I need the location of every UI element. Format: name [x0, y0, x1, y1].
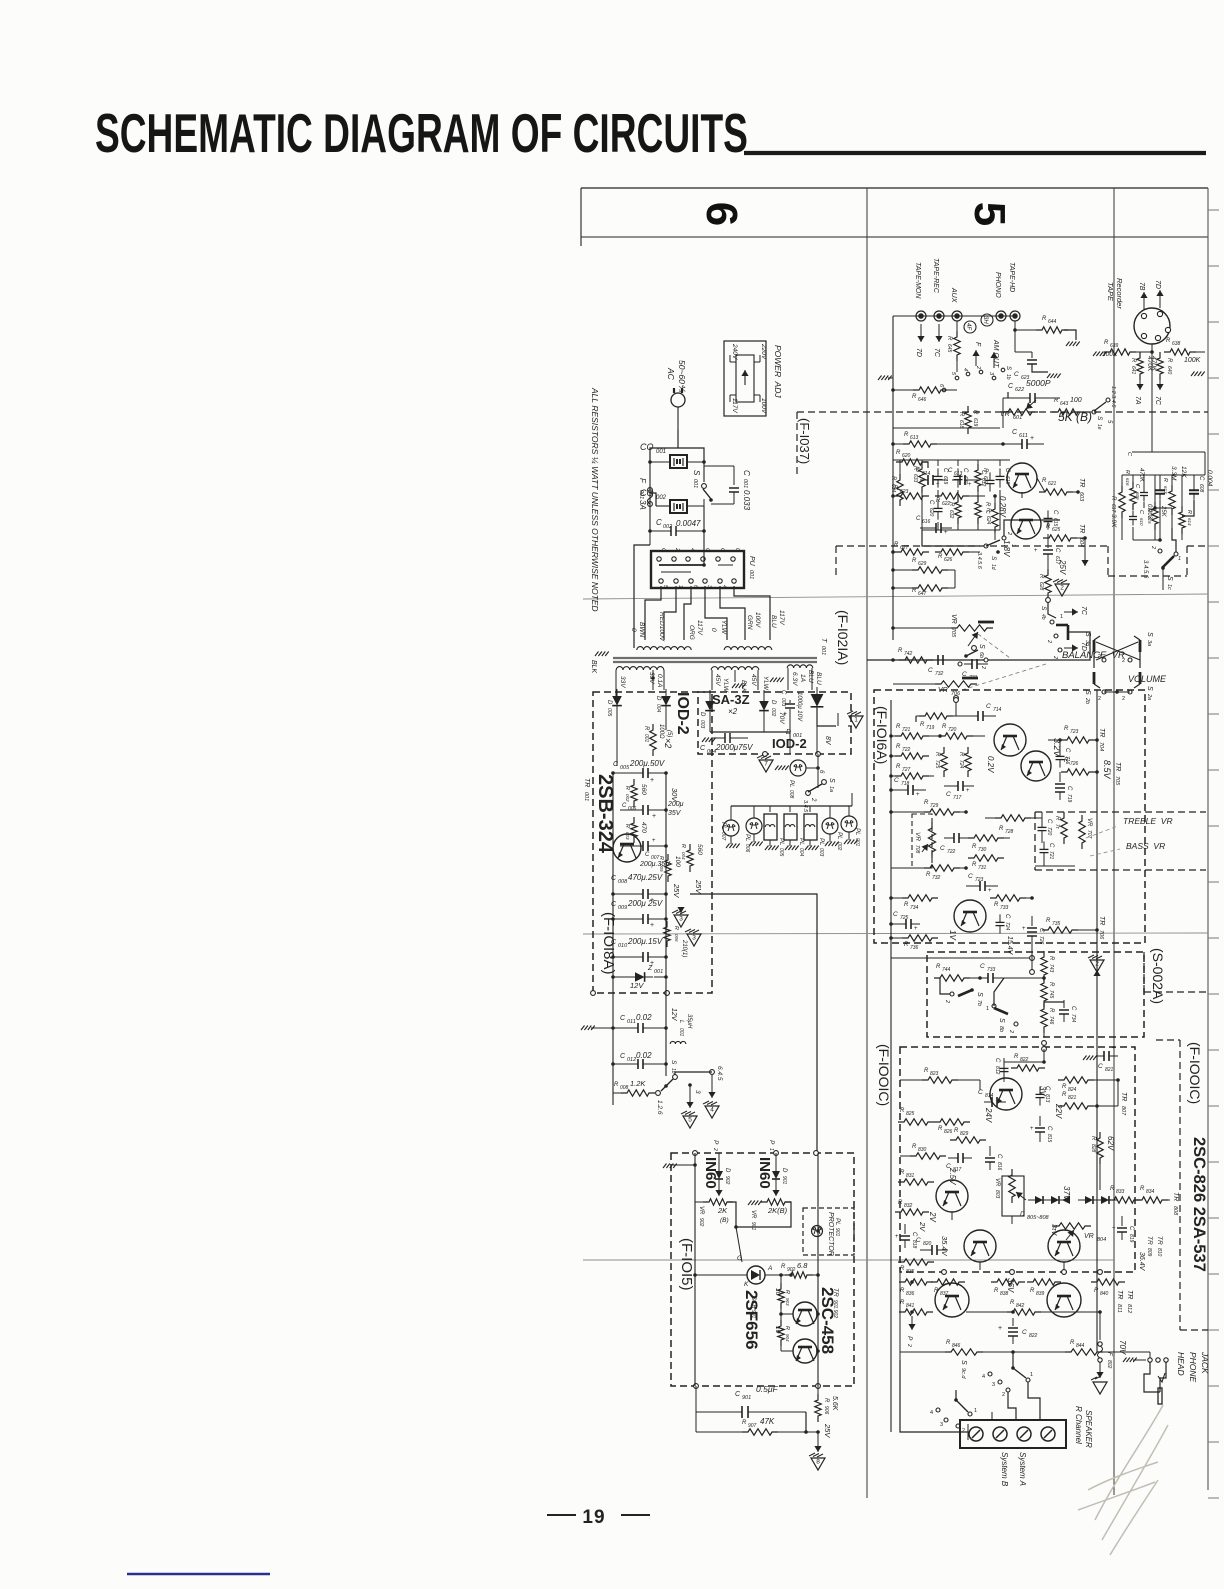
switch S2b [1084, 672, 1106, 704]
VR dashed link [962, 634, 1046, 690]
label TR706 [1098, 916, 1105, 940]
svg-text:2a: 2a [1146, 693, 1152, 700]
svg-text:2: 2 [1150, 545, 1156, 549]
svg-text:+: + [783, 711, 787, 718]
svg-text:C: C [1048, 843, 1054, 848]
svg-text:TR: TR [1078, 478, 1085, 487]
svg-text:834: 834 [1146, 1189, 1155, 1195]
resistor R729 [889, 800, 968, 815]
svg-text:C: C [1046, 1126, 1052, 1131]
capacitor C732 [928, 655, 954, 677]
resistor R832 [895, 1200, 929, 1215]
resistor R841 [899, 1300, 933, 1315]
F-1037 dashed bottom [836, 546, 1208, 576]
pot VR804 [1050, 1223, 1106, 1243]
capacitor C608b [1155, 475, 1165, 500]
svg-text:R: R [924, 800, 929, 806]
svg-text:R: R [1046, 524, 1051, 530]
svg-text:622: 622 [942, 501, 951, 507]
F-1016A bottom wire [891, 944, 1034, 974]
svg-text:6.4.5: 6.4.5 [716, 1066, 723, 1081]
svg-text:C: C [948, 468, 953, 474]
resistor R721 [889, 724, 942, 739]
svg-text:+: + [944, 530, 948, 536]
svg-text:47K: 47K [760, 1417, 775, 1426]
line filter CO001 [648, 455, 706, 468]
capacitor C719 [1055, 772, 1072, 803]
connector triangle 5 [681, 1111, 697, 1128]
resistor R002 560 [624, 779, 647, 807]
switch S8b [986, 978, 1018, 1033]
svg-text:723: 723 [1070, 729, 1079, 735]
svg-text:100V: 100V [760, 398, 767, 414]
svg-text:5000P: 5000P [1026, 378, 1051, 388]
svg-text:643: 643 [1060, 401, 1069, 407]
resistor R614 12K [1179, 466, 1192, 540]
svg-text:7b: 7b [976, 1000, 982, 1006]
svg-text:3a: 3a [1146, 640, 1152, 646]
svg-text:615: 615 [1052, 518, 1058, 527]
transistor TR705 [1021, 738, 1062, 781]
resistor R725 [934, 747, 947, 777]
svg-text:617: 617 [1110, 504, 1116, 513]
pot VR706 [893, 678, 978, 700]
label 25V pair [672, 879, 703, 898]
svg-text:×2: ×2 [663, 738, 673, 748]
svg-text:2b: 2b [1084, 697, 1090, 704]
lamp PL006 [744, 818, 763, 853]
svg-text:828: 828 [1090, 1144, 1096, 1153]
capacitor C820 [916, 1236, 949, 1257]
resistor R844 [1013, 1340, 1127, 1355]
svg-text:901: 901 [742, 1395, 751, 1401]
transistor TR704 [986, 724, 1062, 773]
svg-text:VR: VR [950, 614, 957, 624]
capacitor C818 [895, 1221, 927, 1249]
label TR809 TR810 [1138, 1236, 1163, 1272]
frame left border [580, 188, 582, 246]
capacitor C813 [1036, 1086, 1051, 1106]
svg-text:C: C [980, 963, 985, 970]
transistor TR812 [1047, 1283, 1081, 1317]
svg-text:3.3M: 3.3M [1170, 466, 1177, 481]
label TR808 [1172, 1192, 1179, 1216]
svg-text:L: L [678, 1020, 684, 1023]
svg-text:R: R [972, 862, 977, 868]
capacitor C006 200u35V [620, 801, 684, 820]
svg-text:C: C [928, 500, 934, 505]
svg-text:704: 704 [1098, 742, 1104, 751]
jack TAPE-REC [932, 258, 944, 358]
svg-text:809: 809 [1146, 1248, 1152, 1257]
svg-text:3: 3 [679, 916, 683, 923]
svg-text:645: 645 [946, 344, 952, 353]
transformer core [613, 658, 817, 662]
svg-text:708: 708 [914, 845, 920, 854]
svg-text:804: 804 [1097, 1237, 1106, 1243]
svg-text:+: + [1112, 1226, 1116, 1232]
resistor R003 470 [624, 817, 647, 843]
label F802 [1096, 1312, 1113, 1378]
svg-text:CO: CO [640, 442, 654, 452]
pot VR706b wire [891, 698, 958, 703]
F-1037 dashed top [797, 412, 1208, 478]
svg-text:100: 100 [1070, 397, 1082, 404]
transistor TR603 [998, 463, 1037, 518]
svg-text:6.8: 6.8 [797, 1261, 808, 1270]
svg-text:731: 731 [978, 865, 987, 871]
capacitor C734 [1044, 1000, 1076, 1023]
label S-002A [1150, 948, 1166, 1004]
resistor R744 [934, 964, 980, 981]
svg-text:R: R [658, 856, 664, 860]
capacitor C623 [1014, 352, 1061, 381]
svg-text:744: 744 [942, 967, 951, 973]
svg-text:ALL RESISTORS ¼ WATT UNLESS OT: ALL RESISTORS ¼ WATT UNLESS OTHERWISE NO… [590, 387, 600, 612]
svg-text:VR: VR [750, 1210, 756, 1219]
resistor R837 [931, 1279, 965, 1297]
svg-text:0.28V: 0.28V [998, 496, 1007, 518]
svg-text:1c: 1c [1166, 584, 1172, 590]
svg-text:003: 003 [818, 848, 824, 857]
svg-text:7D: 7D [1154, 280, 1161, 289]
svg-text:25K: 25K [1160, 505, 1166, 518]
svg-text:823: 823 [930, 1071, 939, 1077]
resistor R624 [985, 503, 998, 533]
resistor R646 [891, 387, 957, 403]
capacitor C815 [1030, 1116, 1052, 1143]
svg-text:903: 903 [785, 1298, 790, 1306]
label 2SB-324 [583, 774, 616, 854]
svg-text:C: C [1004, 914, 1010, 919]
wires to speaker strip [900, 1352, 1040, 1440]
svg-text:R: R [680, 844, 686, 848]
svg-text:902: 902 [724, 1176, 730, 1185]
svg-text:004: 004 [681, 852, 686, 860]
transistor TR806 [984, 1078, 1047, 1123]
svg-text:3: 3 [694, 1090, 701, 1094]
preamp mid verticals [955, 492, 1048, 588]
svg-text:100V: 100V [754, 612, 761, 628]
resistor R906 5.6K [815, 1394, 838, 1438]
svg-text:R: R [958, 752, 964, 757]
capacitor C725 [889, 911, 920, 932]
capacitor C821 [1083, 1046, 1118, 1073]
svg-text:+: + [650, 777, 654, 784]
resistor R826 [934, 1119, 970, 1135]
preamp top wires [893, 398, 1003, 428]
resistor R006 210 [664, 921, 687, 957]
svg-text:004: 004 [798, 848, 804, 857]
svg-text:GRN: GRN [746, 615, 753, 630]
svg-text:R: R [904, 432, 909, 438]
F-1015 dashed box [671, 1151, 854, 1389]
resistor R613 [891, 432, 1005, 447]
label IN60 right [756, 1157, 773, 1189]
svg-text:2: 2 [975, 365, 981, 369]
svg-text:VR: VR [994, 1178, 1000, 1187]
svg-text:+: + [914, 926, 918, 932]
capacitor C724 [996, 914, 1014, 956]
svg-text:HEAD: HEAD [1176, 1352, 1186, 1376]
svg-text:002: 002 [625, 794, 630, 802]
label BASS VR [1090, 841, 1165, 856]
svg-text:G: G [737, 1255, 742, 1262]
secondary winding 45V [711, 667, 759, 690]
label P1 [768, 1140, 775, 1151]
svg-text:1a: 1a [828, 786, 834, 792]
svg-text:1.2.3.4.6: 1.2.3.4.6 [1110, 386, 1116, 408]
svg-text:C: C [742, 470, 751, 476]
svg-text:613: 613 [954, 471, 963, 477]
resistor R734 [889, 895, 938, 911]
svg-text:C: C [962, 468, 968, 473]
svg-text:842: 842 [1016, 1303, 1025, 1309]
svg-text:628: 628 [1038, 582, 1044, 591]
resistor R620 [896, 450, 928, 468]
svg-text:835: 835 [906, 1269, 915, 1275]
svg-text:611: 611 [1019, 433, 1028, 439]
svg-text:D: D [699, 712, 705, 717]
svg-text:0.0047: 0.0047 [676, 519, 701, 528]
svg-text:+: + [652, 838, 656, 844]
svg-text:732: 732 [935, 671, 944, 677]
svg-text:R: R [1030, 1288, 1035, 1294]
svg-text:705: 705 [950, 628, 956, 638]
svg-text:005: 005 [659, 864, 664, 872]
svg-text:R: R [1166, 358, 1172, 363]
svg-text:R: R [924, 1068, 929, 1074]
svg-text:620: 620 [928, 508, 934, 517]
svg-text:C: C [704, 548, 710, 552]
svg-text:2K(B): 2K(B) [767, 1206, 788, 1215]
label 2SF656 [742, 1290, 761, 1350]
svg-text:R: R [938, 554, 943, 560]
svg-text:720: 720 [948, 727, 957, 733]
resistor R617 3.9K [1110, 475, 1125, 540]
svg-text:822: 822 [1029, 1333, 1038, 1339]
svg-text:BWN: BWN [638, 622, 645, 637]
svg-text:PU: PU [748, 556, 755, 567]
svg-text:IN60: IN60 [756, 1157, 773, 1189]
wire DIN down [1151, 344, 1153, 360]
connector triangle 2b [1088, 955, 1104, 992]
capacitor C717 [944, 781, 974, 801]
capacitor C616 [916, 516, 952, 536]
svg-text:3: 3 [692, 935, 696, 942]
label TR901.902 [832, 1288, 839, 1318]
svg-text:632: 632 [948, 510, 954, 519]
svg-text:R: R [984, 502, 990, 507]
label CO001 [640, 442, 666, 455]
bottom blue rule [127, 1573, 270, 1575]
svg-text:1V: 1V [948, 930, 957, 940]
svg-text:62V: 62V [1106, 1136, 1115, 1151]
svg-text:0.2V: 0.2V [986, 756, 995, 773]
resistor R621 [1037, 478, 1080, 495]
svg-text:TR: TR [1172, 1192, 1179, 1201]
svg-text:4b: 4b [1040, 614, 1046, 620]
VR feedback wires [727, 1202, 791, 1229]
svg-text:R: R [896, 764, 901, 770]
resistor R720 [939, 724, 985, 739]
svg-text:R: R [912, 1144, 917, 1150]
svg-text:734: 734 [910, 905, 919, 911]
zener Z001 12V [611, 965, 668, 990]
wire R906 down [814, 1430, 821, 1452]
svg-text:C: C [1014, 371, 1019, 378]
svg-text:R: R [936, 498, 941, 504]
svg-text:C: C [1138, 510, 1144, 514]
svg-text:622: 622 [1015, 387, 1024, 393]
svg-text:2: 2 [1122, 658, 1125, 664]
svg-text:T: T [820, 638, 827, 643]
frame right border [1207, 188, 1209, 1490]
svg-text:VR: VR [914, 832, 921, 841]
capacitor C001 0.033 [704, 466, 751, 511]
F-1016A dashed box [874, 690, 1145, 943]
svg-text:S: S [670, 1060, 677, 1065]
resistor R732 [891, 865, 968, 881]
svg-text:4: 4 [721, 585, 727, 588]
svg-text:25V: 25V [1058, 559, 1067, 575]
svg-text:821: 821 [1068, 1095, 1077, 1101]
svg-text:904: 904 [785, 1334, 790, 1342]
svg-text:C: C [893, 911, 898, 918]
resistor R001 100ohm [643, 724, 672, 756]
svg-text:721: 721 [1048, 851, 1054, 860]
svg-text:613: 613 [1163, 486, 1168, 494]
svg-text:S: S [692, 470, 701, 476]
svg-text:618: 618 [958, 420, 964, 429]
capacitor C614 [916, 468, 948, 488]
F-1001C bottom nodes [942, 1270, 1103, 1275]
resistor R735 [1042, 918, 1099, 933]
arrow 7D [1052, 642, 1087, 659]
svg-text:R: R [900, 1108, 905, 1114]
svg-text:PL: PL [720, 822, 726, 829]
svg-text:7C: 7C [933, 348, 940, 358]
svg-text:840: 840 [1100, 1291, 1109, 1297]
pot VR601 5K [1000, 398, 1092, 424]
rectifier dashed box [698, 692, 851, 756]
svg-text:609: 609 [1135, 492, 1140, 500]
ground F1015 [663, 1164, 695, 1169]
svg-text:(F-IOI6A): (F-IOI6A) [874, 706, 890, 764]
svg-text:2000μ75V: 2000μ75V [715, 743, 753, 752]
svg-text:4: 4 [930, 1410, 933, 1416]
svg-text:R: R [896, 724, 901, 730]
transistor TR902 [781, 1339, 817, 1363]
svg-text:70V: 70V [1118, 1340, 1127, 1355]
jack TAPE-MON [914, 262, 926, 357]
svg-text:SPEAKER: SPEAKER [1084, 1410, 1093, 1448]
svg-text:620: 620 [902, 453, 911, 459]
label TR604 [1078, 524, 1085, 547]
svg-text:003: 003 [625, 832, 630, 840]
svg-text:100K: 100K [1184, 357, 1201, 364]
resistor R004 560 [680, 844, 703, 872]
TR901 wires [781, 1313, 818, 1315]
frame top line [581, 187, 1208, 189]
svg-text:001: 001 [583, 792, 589, 801]
svg-text:117V: 117V [696, 620, 703, 635]
capacitor C901 0.5uF [696, 1384, 806, 1432]
wires PU001 to windings [634, 560, 770, 648]
svg-text:12V: 12V [670, 1008, 677, 1022]
svg-text:719: 719 [926, 725, 935, 731]
svg-text:623: 623 [900, 489, 909, 495]
label PU001 [748, 556, 755, 579]
svg-text:200μ.50V: 200μ.50V [629, 759, 665, 768]
svg-text:R: R [1046, 918, 1051, 924]
svg-text:0.02: 0.02 [636, 1013, 652, 1022]
svg-text:24V: 24V [984, 1107, 993, 1123]
svg-text:220V: 220V [760, 343, 767, 360]
PU001 internal wires [659, 551, 733, 572]
svg-text:560: 560 [696, 844, 703, 855]
resistor R907 47K [696, 1412, 818, 1435]
svg-text:4: 4 [710, 1107, 714, 1114]
PL901 dashed frame [803, 1208, 854, 1255]
capacitor C009 200u25V [611, 899, 666, 929]
svg-text:5: 5 [688, 1117, 692, 1124]
svg-text:6b: 6b [978, 652, 984, 658]
label TR807 [1120, 1092, 1127, 1116]
capacitor C812 [994, 1058, 1044, 1080]
resistor R613 3.3M [1162, 466, 1177, 528]
svg-text:C: C [660, 548, 666, 552]
svg-text:C: C [1046, 819, 1052, 824]
svg-text:C: C [1098, 1063, 1103, 1070]
svg-text:TAPE-REC: TAPE-REC [932, 258, 939, 294]
svg-text:1d: 1d [990, 564, 996, 570]
svg-text:824: 824 [1068, 1087, 1077, 1093]
diode D002 [759, 694, 785, 724]
resistor R723 [1061, 726, 1099, 743]
svg-text:YLW: YLW [762, 676, 769, 691]
svg-text:560: 560 [640, 784, 647, 795]
switch S3a [1122, 632, 1153, 664]
svg-text:+: + [652, 813, 656, 820]
power adjust selector box [724, 341, 766, 416]
svg-text:S: S [990, 556, 997, 561]
svg-text:(F-I02IA): (F-I02IA) [835, 610, 851, 665]
wire below box [613, 993, 666, 1105]
resistor R616 470K [1124, 468, 1144, 510]
fold line horizontal C [583, 1259, 1115, 1261]
ground C011 [581, 1026, 615, 1031]
supply wire to protector [690, 894, 819, 1155]
speaker terminal strip [960, 1420, 1066, 1448]
svg-text:35.4V: 35.4V [940, 1236, 949, 1257]
connector triangle 1 [847, 711, 863, 728]
F-1018A left bus [612, 773, 614, 993]
F-1018A dashed box [591, 692, 712, 995]
svg-text:726: 726 [1038, 936, 1044, 945]
svg-text:2: 2 [674, 547, 680, 551]
svg-text:TAPE-MON: TAPE-MON [914, 262, 921, 299]
svg-text:1: 1 [1060, 614, 1063, 620]
svg-text:R: R [1062, 1092, 1067, 1098]
resistor R834 [1136, 1186, 1170, 1203]
svg-text:608: 608 [1198, 484, 1204, 493]
svg-text:AUX: AUX [950, 287, 957, 303]
svg-text:200μ 25V: 200μ 25V [627, 899, 663, 908]
head phone jack [1144, 1358, 1168, 1404]
svg-text:R: R [614, 1082, 619, 1088]
label F-1018A [600, 912, 617, 975]
